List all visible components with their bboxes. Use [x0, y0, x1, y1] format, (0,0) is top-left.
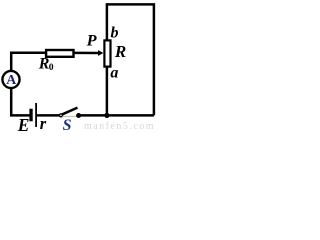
potentiometer R: [104, 40, 110, 66]
switch contact dot: [76, 113, 81, 118]
svg-text:r: r: [40, 114, 47, 132]
switch blade: [62, 108, 77, 115]
wire battery to switch: [37, 114, 59, 117]
svg-text:R: R: [114, 42, 126, 61]
svg-text:b: b: [111, 24, 119, 41]
svg-text:manfen5.com: manfen5.com: [84, 121, 154, 132]
slider arrowhead P: [98, 50, 103, 56]
resistor R0: [46, 50, 73, 57]
battery short plate: [29, 109, 32, 122]
switch pivot ring: [60, 114, 63, 117]
wire big loop top and right: [106, 4, 154, 115]
svg-text:S: S: [63, 117, 72, 132]
svg-text:A: A: [6, 72, 16, 87]
junction node: [104, 113, 109, 118]
svg-text:a: a: [110, 65, 118, 82]
svg-text:P: P: [86, 31, 98, 50]
svg-text:E: E: [17, 115, 30, 132]
wire bottom rail to right edge: [79, 114, 154, 117]
wire above R to top edge: [106, 4, 109, 40]
battery long plate: [35, 103, 37, 127]
wire ammeter to bottom-left corner: [11, 89, 29, 116]
switch open baseline: [62, 115, 77, 117]
wire R0 to slider arrow: [75, 52, 99, 55]
wire top-left corner: [11, 53, 45, 71]
ammeter A: [2, 71, 19, 88]
wire below R to junction: [106, 67, 109, 116]
svg-text:0: 0: [49, 62, 54, 73]
